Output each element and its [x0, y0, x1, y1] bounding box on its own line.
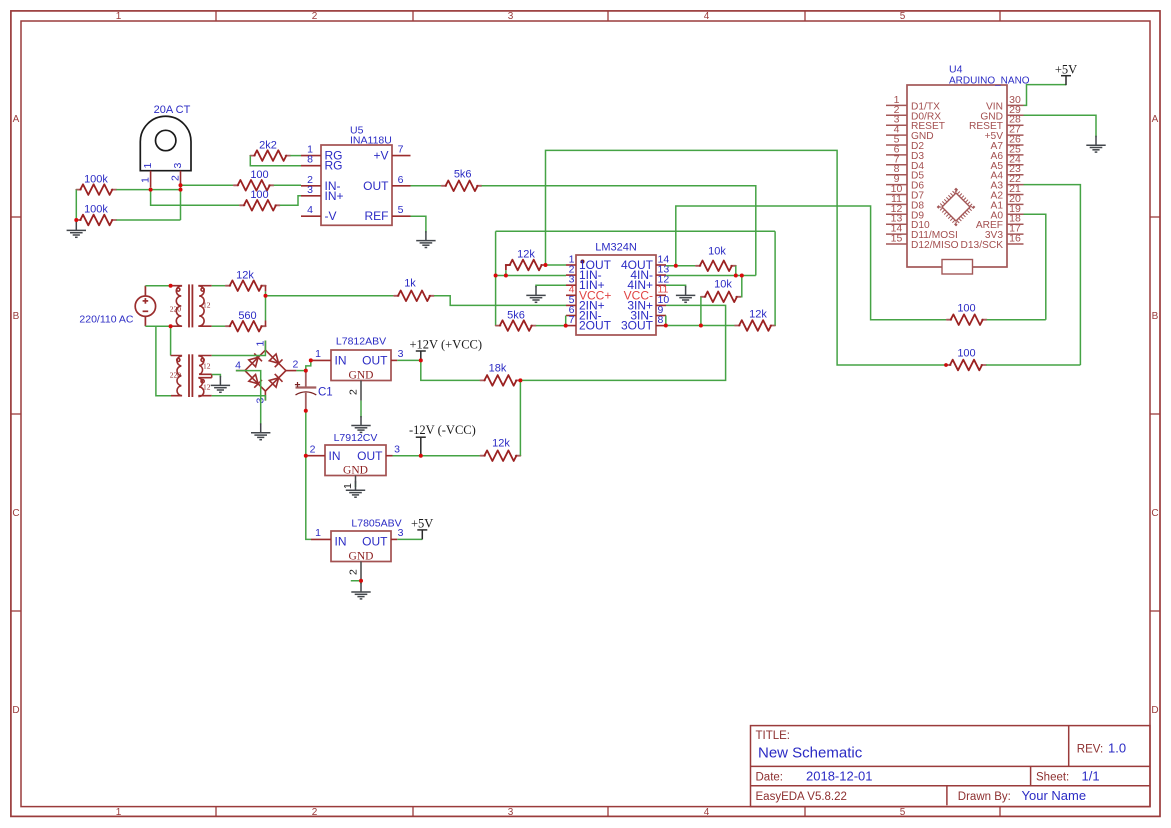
- junction dot 3OUT pin: [664, 324, 668, 328]
- wire 1k to LM324 2IN+: [434, 296, 566, 306]
- U5 pin 3 IN+: [301, 195, 321, 197]
- svg-text:L7812ABV: L7812ABV: [336, 336, 386, 348]
- wire LM324 pin1 node to lower 100: [546, 150, 947, 365]
- U1 pin 3 OUT: [391, 359, 397, 361]
- junction dot lower 100 left: [944, 363, 948, 367]
- wire 2k2 right to pin1: [290, 155, 301, 157]
- svg-text:OUT: OUT: [362, 535, 388, 549]
- wire U1 OUT to +12V node: [397, 359, 421, 361]
- U4 right pin numbers: [1009, 94, 1021, 245]
- svg-text:3: 3: [398, 348, 404, 360]
- resistor R 560: [226, 321, 266, 332]
- svg-text:EasyEDA V5.8.22: EasyEDA V5.8.22: [756, 791, 847, 803]
- svg-text:100: 100: [250, 169, 268, 181]
- regulator U3 L7805ABV: [331, 531, 391, 562]
- svg-text:Date:: Date:: [756, 772, 784, 784]
- wire T1 sec top to 12k: [212, 285, 226, 287]
- junction dot CT pin1: [149, 188, 153, 192]
- svg-text:12k: 12k: [492, 438, 510, 450]
- wire C1 bottom to L7912 IN / L7805 IN: [306, 411, 311, 540]
- wire T2 sec bottom to bridge pin3: [212, 396, 266, 401]
- resistor R 1k: [394, 291, 434, 302]
- svg-text:3: 3: [508, 807, 514, 818]
- svg-text:5: 5: [398, 204, 404, 216]
- resistor R 2k2: [250, 150, 290, 161]
- junction dot C1 bottom: [304, 409, 308, 413]
- wire 100k-upper to CT pins row: [116, 189, 180, 191]
- svg-text:L7805ABV: L7805ABV: [351, 518, 401, 530]
- svg-text:+12V (+VCC): +12V (+VCC): [410, 338, 483, 352]
- svg-text:1: 1: [116, 807, 122, 818]
- resistor R 5k6 (op2): [496, 320, 536, 331]
- title block: [751, 726, 1151, 807]
- svg-text:6: 6: [398, 174, 404, 186]
- U1 pin 2 GND lead: [360, 381, 362, 401]
- svg-text:220: 220: [170, 305, 182, 314]
- wire 10k#2 left down to 3OUT row: [700, 297, 702, 326]
- LM324N polarity dot: [581, 260, 585, 264]
- U3 pin 1 IN: [311, 538, 331, 540]
- power flag +5V (VIN): [1061, 76, 1071, 86]
- U5 pin 5 REF: [392, 215, 411, 217]
- wire T1 sec bottom to 560: [212, 325, 226, 327]
- svg-text:100: 100: [957, 302, 975, 314]
- resistor R 100k (upper): [76, 184, 116, 195]
- wire 100 lower jog to pin3: [280, 196, 301, 206]
- svg-text:2: 2: [348, 569, 360, 575]
- CT pin 3 lead: [180, 171, 182, 186]
- U4 right pin names: [961, 101, 1004, 251]
- svg-text:OUT: OUT: [362, 354, 388, 368]
- svg-text:8: 8: [658, 314, 664, 326]
- resistor R 12k (inverting sum): [480, 450, 520, 461]
- svg-text:U4: U4: [949, 64, 963, 76]
- svg-text:VCC+: VCC+: [579, 288, 611, 302]
- wire summing node to LM324 3IN+: [520, 305, 725, 380]
- resistor R 100 (lower, to IN+): [240, 200, 280, 211]
- wire U1 GND to ground: [360, 401, 362, 418]
- svg-text:4: 4: [704, 11, 710, 22]
- regulator U1 L7812ABV: [331, 350, 391, 381]
- svg-text:2: 2: [312, 807, 318, 818]
- svg-text:2: 2: [293, 358, 299, 370]
- ground at U4 GND: [1086, 136, 1105, 152]
- svg-text:18k: 18k: [489, 362, 507, 374]
- wire CT pin3 down: [180, 185, 182, 220]
- svg-text:B: B: [1152, 311, 1159, 322]
- svg-text:12: 12: [203, 382, 211, 391]
- svg-text:3: 3: [172, 163, 184, 169]
- wire AC- down to T2 primary top: [170, 326, 172, 355]
- svg-text:100k: 100k: [84, 173, 108, 185]
- svg-text:2: 2: [170, 175, 182, 181]
- junction dot 2OUT: [564, 324, 568, 328]
- wire 12k corner down to node: [265, 291, 267, 295]
- svg-text:3: 3: [398, 527, 404, 539]
- U4 left pin names: [911, 101, 959, 251]
- svg-text:-V: -V: [325, 209, 337, 223]
- wire 12k corner to 1IN-: [505, 270, 507, 275]
- wire CT pin3 to 100 upper: [181, 184, 234, 186]
- wire -12V node to 12k: [421, 455, 481, 457]
- wire bridge pin4 to ground: [236, 371, 261, 425]
- U4 right pin leads 30-16: [1007, 105, 1024, 244]
- svg-text:3: 3: [307, 184, 313, 196]
- wire U5 OUT to 5k6: [411, 185, 442, 187]
- ground at 1IN+: [526, 286, 545, 302]
- LM324N left pins 1-7: [566, 265, 576, 326]
- U5 pin 8 RG: [301, 165, 321, 167]
- resistor R 12k (3OUT feedback): [735, 320, 775, 331]
- U5 pin names: [325, 149, 390, 224]
- wire pin14 to 10k: [666, 265, 696, 267]
- svg-text:12k: 12k: [517, 249, 535, 261]
- svg-text:IN: IN: [335, 535, 347, 549]
- wire 2OUT up to 2IN-: [565, 316, 567, 326]
- junction dot 4OUT: [674, 264, 678, 268]
- 12k right corner lead: [265, 286, 267, 292]
- junction dot C1 top node: [304, 369, 308, 373]
- svg-text:A: A: [13, 114, 20, 125]
- svg-text:IN: IN: [335, 354, 347, 368]
- wire jog up to L7812 IN: [306, 360, 311, 370]
- svg-text:100: 100: [957, 347, 975, 359]
- wire node to 1k: [266, 295, 395, 297]
- junction dot T1 primary bottom: [169, 324, 173, 328]
- resistor R 10k (to 3OUT): [701, 292, 741, 303]
- wire 12k up to summing node: [519, 380, 521, 455]
- svg-text:2k2: 2k2: [259, 139, 277, 151]
- wire 5k6 to LM324 4IN- column: [482, 186, 756, 276]
- U5 pin 2 IN-: [301, 185, 321, 187]
- svg-text:5: 5: [900, 807, 906, 818]
- svg-text:New Schematic: New Schematic: [758, 745, 863, 762]
- wire A3 to lower 100: [1024, 185, 1081, 365]
- ground at 4IN+: [676, 286, 695, 302]
- svg-text:-12V (-VCC): -12V (-VCC): [409, 423, 476, 437]
- svg-text:3: 3: [508, 11, 514, 22]
- wire 100 upper to pin2: [274, 184, 301, 186]
- svg-text:10k: 10k: [708, 246, 726, 258]
- wire pin2 1IN- row: [496, 275, 566, 277]
- resistor R 10k (feedback op4): [696, 261, 736, 272]
- svg-text:1k: 1k: [404, 278, 416, 290]
- svg-text:12k: 12k: [749, 309, 767, 321]
- svg-text:2: 2: [348, 389, 360, 395]
- wire AC+ to T1 primary: [145, 285, 170, 287]
- U1 pin 1 IN: [311, 359, 331, 361]
- diode BL: [249, 374, 258, 383]
- U4 left pin numbers: [891, 94, 903, 245]
- ground under U2: [346, 481, 365, 497]
- resistor R 100 (A0 line): [947, 314, 987, 325]
- junction dot 4IN- b: [740, 274, 744, 278]
- U2 pin 1 GND lead: [355, 476, 357, 484]
- wire 100k left vertical to ground: [75, 190, 77, 223]
- op-amp U5 INA118U box: [321, 145, 392, 225]
- wire vertical feedback column: [495, 231, 497, 325]
- resistor R 12k (feedback op1): [506, 260, 546, 271]
- junction dot summing node: [518, 378, 522, 382]
- wire 5k6 to pin7: [536, 325, 566, 327]
- junction dot U3 GND: [359, 579, 363, 583]
- wire bridge pin2 to C1/IN node: [296, 370, 305, 372]
- svg-text:5k6: 5k6: [507, 309, 525, 321]
- junction dot L7812 IN: [309, 358, 313, 362]
- wire stub at U3 GND: [351, 581, 361, 584]
- U5 pin 7 +V: [392, 155, 411, 157]
- junction dot 3OUT 10k drop: [699, 324, 703, 328]
- U3 pin 3 OUT: [391, 538, 397, 540]
- LM324N pin names: [579, 258, 654, 333]
- diode BR: [269, 378, 278, 387]
- CT pin 1 lead: [150, 171, 152, 188]
- junction dot L7912 IN: [304, 454, 308, 458]
- resistor R 18k: [480, 375, 520, 386]
- resistor R 12k (T1): [226, 280, 266, 291]
- svg-text:4: 4: [235, 359, 241, 371]
- mcu U4 ARDUINO_NANO box: [907, 85, 1007, 267]
- U4 MCU diamond icon: [940, 191, 973, 224]
- svg-text:OUT: OUT: [357, 449, 383, 463]
- svg-text:10k: 10k: [714, 279, 732, 291]
- svg-text:100k: 100k: [84, 204, 108, 216]
- LM324N right pins 14-8: [656, 265, 666, 326]
- svg-text:1: 1: [342, 483, 354, 489]
- svg-text:7: 7: [569, 314, 575, 326]
- svg-text:D: D: [12, 705, 19, 716]
- svg-text:220/110 AC: 220/110 AC: [79, 314, 134, 326]
- svg-text:1.0: 1.0: [1108, 741, 1126, 756]
- svg-text:D12/MISO: D12/MISO: [911, 240, 959, 251]
- svg-text:1: 1: [140, 177, 152, 183]
- bridge rectifier D1: [236, 341, 297, 401]
- wire VIN to +5V flag: [1024, 85, 1067, 106]
- svg-text:2: 2: [312, 11, 318, 22]
- transformer T2 (center-tapped): [171, 354, 212, 397]
- U2 pin 3 OUT: [386, 455, 393, 457]
- power flag +12V: [416, 351, 426, 361]
- junction dot +12V node: [419, 358, 423, 362]
- ground under 100k: [67, 221, 86, 237]
- junction dot CT pin3 at 189.6: [179, 188, 183, 192]
- power flag -12V: [416, 437, 426, 456]
- ground at T2 center tap: [211, 376, 230, 392]
- svg-text:B: B: [13, 311, 20, 322]
- wire pin8 3OUT row: [666, 325, 735, 327]
- wire +12V node down to 18k: [421, 360, 481, 380]
- svg-text:12: 12: [203, 361, 211, 370]
- svg-text:GND: GND: [349, 550, 374, 562]
- svg-text:5: 5: [900, 11, 906, 22]
- wire U3 OUT to +5V flag: [397, 538, 422, 540]
- junction dot 1IN- 12k drop: [504, 274, 508, 278]
- svg-text:1: 1: [116, 11, 122, 22]
- diode TR: [269, 354, 278, 363]
- U5 pin 4 -V: [301, 215, 321, 217]
- svg-text:INA118U: INA118U: [350, 134, 392, 146]
- svg-text:1: 1: [142, 163, 154, 169]
- junction dot pin1 node: [544, 263, 548, 267]
- U4 USB connector rect: [942, 260, 973, 275]
- svg-text:IN: IN: [329, 449, 341, 463]
- svg-text:REF: REF: [365, 209, 389, 223]
- wire AC- to T1 primary: [145, 325, 170, 327]
- svg-text:GND: GND: [343, 464, 368, 476]
- svg-text:+5V: +5V: [411, 517, 433, 531]
- svg-text:D: D: [1151, 705, 1158, 716]
- svg-text:20A CT: 20A CT: [154, 104, 191, 116]
- resistor R 5k6 (at U5 output): [442, 181, 482, 192]
- ground under bridge: [251, 423, 270, 439]
- wire T2 sec top to bridge pin1: [212, 341, 266, 356]
- svg-text:1: 1: [315, 348, 321, 360]
- wire LM324 pin14 to upper 100: [676, 206, 947, 320]
- wire 12k right up to top link: [774, 231, 776, 325]
- U4 left pin leads 1-15: [886, 105, 907, 244]
- LM324N pin numbers left: [569, 253, 575, 326]
- junction dot -12V node: [419, 454, 423, 458]
- wire GND29 to ground: [1024, 115, 1097, 137]
- svg-text:220: 220: [170, 371, 182, 380]
- svg-text:L7912CV: L7912CV: [334, 432, 378, 444]
- junction dot 1IN- left: [494, 274, 498, 278]
- wire top link to 3OUT 12k: [496, 230, 775, 232]
- svg-text:7: 7: [398, 144, 404, 156]
- svg-text:3OUT: 3OUT: [621, 319, 654, 333]
- svg-text:2OUT: 2OUT: [579, 319, 612, 333]
- svg-text:Drawn By:: Drawn By:: [958, 791, 1011, 803]
- ground under U1: [351, 416, 370, 432]
- svg-text:1: 1: [315, 527, 321, 539]
- 560 right corner lead: [265, 321, 267, 327]
- resistor R 100 (upper, to IN-): [234, 180, 274, 191]
- svg-text:4: 4: [307, 204, 313, 216]
- svg-text:8: 8: [307, 154, 313, 166]
- wire 100k-lower to CT pin3 column: [116, 219, 180, 221]
- AC source 220/110 AC: [135, 286, 155, 327]
- regulator U2 L7912CV: [325, 445, 386, 476]
- svg-text:4: 4: [704, 807, 710, 818]
- svg-text:C1: C1: [318, 387, 333, 399]
- svg-text:560: 560: [238, 310, 256, 322]
- svg-text:16: 16: [1009, 233, 1021, 245]
- svg-text:100: 100: [250, 189, 268, 201]
- wire 560 corner up to node: [265, 296, 267, 321]
- svg-text:IN+: IN+: [325, 189, 344, 203]
- power flag +5V (regulator): [417, 530, 427, 540]
- transformer T1: [171, 284, 212, 327]
- junction dot 100k ground node: [74, 218, 78, 222]
- LM324N pin numbers right: [658, 253, 670, 326]
- svg-text:VCC-: VCC-: [624, 288, 653, 302]
- svg-text:TITLE:: TITLE:: [756, 730, 791, 742]
- junction dot T1 primary top: [169, 284, 173, 288]
- wire T2 primary bottom left leg: [156, 326, 171, 396]
- wire T2 center tap to ground: [212, 375, 221, 378]
- wire 10k right down to 4IN-: [735, 266, 737, 276]
- svg-text:+5V: +5V: [1055, 62, 1077, 76]
- svg-text:2: 2: [310, 444, 316, 456]
- wire pin13 4IN- row: [666, 275, 756, 277]
- svg-text:3: 3: [394, 444, 400, 456]
- svg-text:RG: RG: [325, 159, 343, 173]
- svg-text:+V: +V: [373, 149, 388, 163]
- wire lower 100 to A3 column: [986, 364, 1080, 366]
- wire upper 100 to A0 column: [987, 319, 1046, 321]
- junction dot sense divider node: [264, 294, 268, 298]
- svg-text:4: 4: [569, 284, 575, 296]
- junction dot 4IN- a: [734, 274, 738, 278]
- svg-text:Sheet:: Sheet:: [1036, 772, 1069, 784]
- U5 pin 6 OUT: [392, 185, 411, 187]
- resistor R 100k (lower): [76, 215, 116, 226]
- svg-text:OUT: OUT: [363, 179, 389, 193]
- svg-text:REV:: REV:: [1077, 744, 1103, 756]
- wire 10k#2 right up to 4IN-: [740, 276, 743, 297]
- wire 4IN+ to ground: [666, 285, 686, 287]
- svg-text:GND: GND: [349, 369, 374, 381]
- wire 2k2 loop to pin8: [250, 156, 301, 166]
- svg-text:1/1: 1/1: [1082, 769, 1100, 784]
- svg-text:12k: 12k: [236, 269, 254, 281]
- wire 3OUT up to 3IN-: [665, 316, 667, 326]
- wire CT pin1 down and right to 100 lower: [151, 187, 240, 205]
- svg-text:ARDUINO_NANO: ARDUINO_NANO: [949, 75, 1030, 86]
- svg-text:C: C: [1151, 508, 1158, 519]
- svg-text:2018-12-01: 2018-12-01: [806, 769, 873, 784]
- resistor R 100 (A3 line): [946, 360, 986, 371]
- capacitor C1: [296, 371, 317, 411]
- svg-text:C: C: [12, 508, 19, 519]
- svg-text:Your Name: Your Name: [1022, 788, 1087, 803]
- svg-text:A: A: [1152, 114, 1159, 125]
- wire 12k right to pin1: [546, 264, 566, 266]
- U3 pin 2 GND lead: [360, 562, 362, 581]
- 12k left corner lead: [506, 265, 510, 270]
- wire U5 REF to ground: [411, 216, 426, 232]
- U5 pin 1 RG: [301, 155, 321, 157]
- svg-text:5k6: 5k6: [454, 168, 472, 180]
- junction dot CT pin3 at 185.3: [179, 183, 183, 187]
- wire U2 GND short: [355, 484, 357, 488]
- op-amp U? LM324N box: [576, 255, 656, 335]
- current transformer CT1 body (20A CT): [140, 116, 191, 170]
- diode TL: [249, 357, 258, 366]
- svg-text:LM324N: LM324N: [595, 241, 637, 253]
- ground at U5 REF: [416, 231, 435, 247]
- svg-text:D13/SCK: D13/SCK: [961, 240, 1004, 251]
- wire 1IN+ to ground: [536, 285, 566, 287]
- U2 pin 2 IN: [306, 455, 325, 457]
- wire A0 to upper 100: [1024, 214, 1046, 319]
- svg-text:12: 12: [203, 301, 211, 310]
- ground under U3: [351, 583, 370, 599]
- wire U2 OUT to -12V node: [393, 455, 421, 457]
- svg-text:15: 15: [891, 233, 903, 245]
